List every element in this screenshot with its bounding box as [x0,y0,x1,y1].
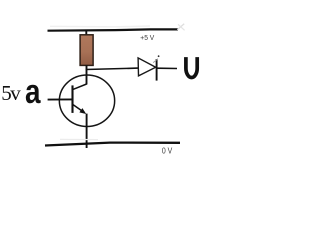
transistor Q1 body [59,75,114,126]
stray stroke [153,59,158,63]
svg-text:a: a [25,72,41,110]
svg-text:0 V: 0 V [162,147,173,156]
emitter wire to 0V rail [86,114,88,148]
0V rail [45,143,180,146]
svg-text:5v: 5v [1,81,21,105]
+5V rail ghost [50,25,150,28]
diode output wire [157,67,177,69]
0V rail ghost [60,138,98,140]
transistor Q1 emitter stroke [73,105,84,113]
stray mark [158,55,160,57]
diode D1 triangle [138,58,156,76]
label U [186,57,197,77]
transistor Q1 base bar [71,85,73,113]
wire rail to resistor R1 [85,30,87,36]
transistor Q1 emitter arrow [79,108,86,114]
wire node to diode anode [86,68,139,69]
svg-text:+5 V: +5 V [140,33,155,42]
resistor R1 [80,35,93,66]
base wire [48,98,74,100]
transistor Q1 collector stroke [73,84,87,89]
+5V rail end cap [177,24,184,30]
wire resistor to collector node [86,65,88,84]
+5V rail [48,29,179,30]
diode D1 cathode bar [156,59,158,81]
